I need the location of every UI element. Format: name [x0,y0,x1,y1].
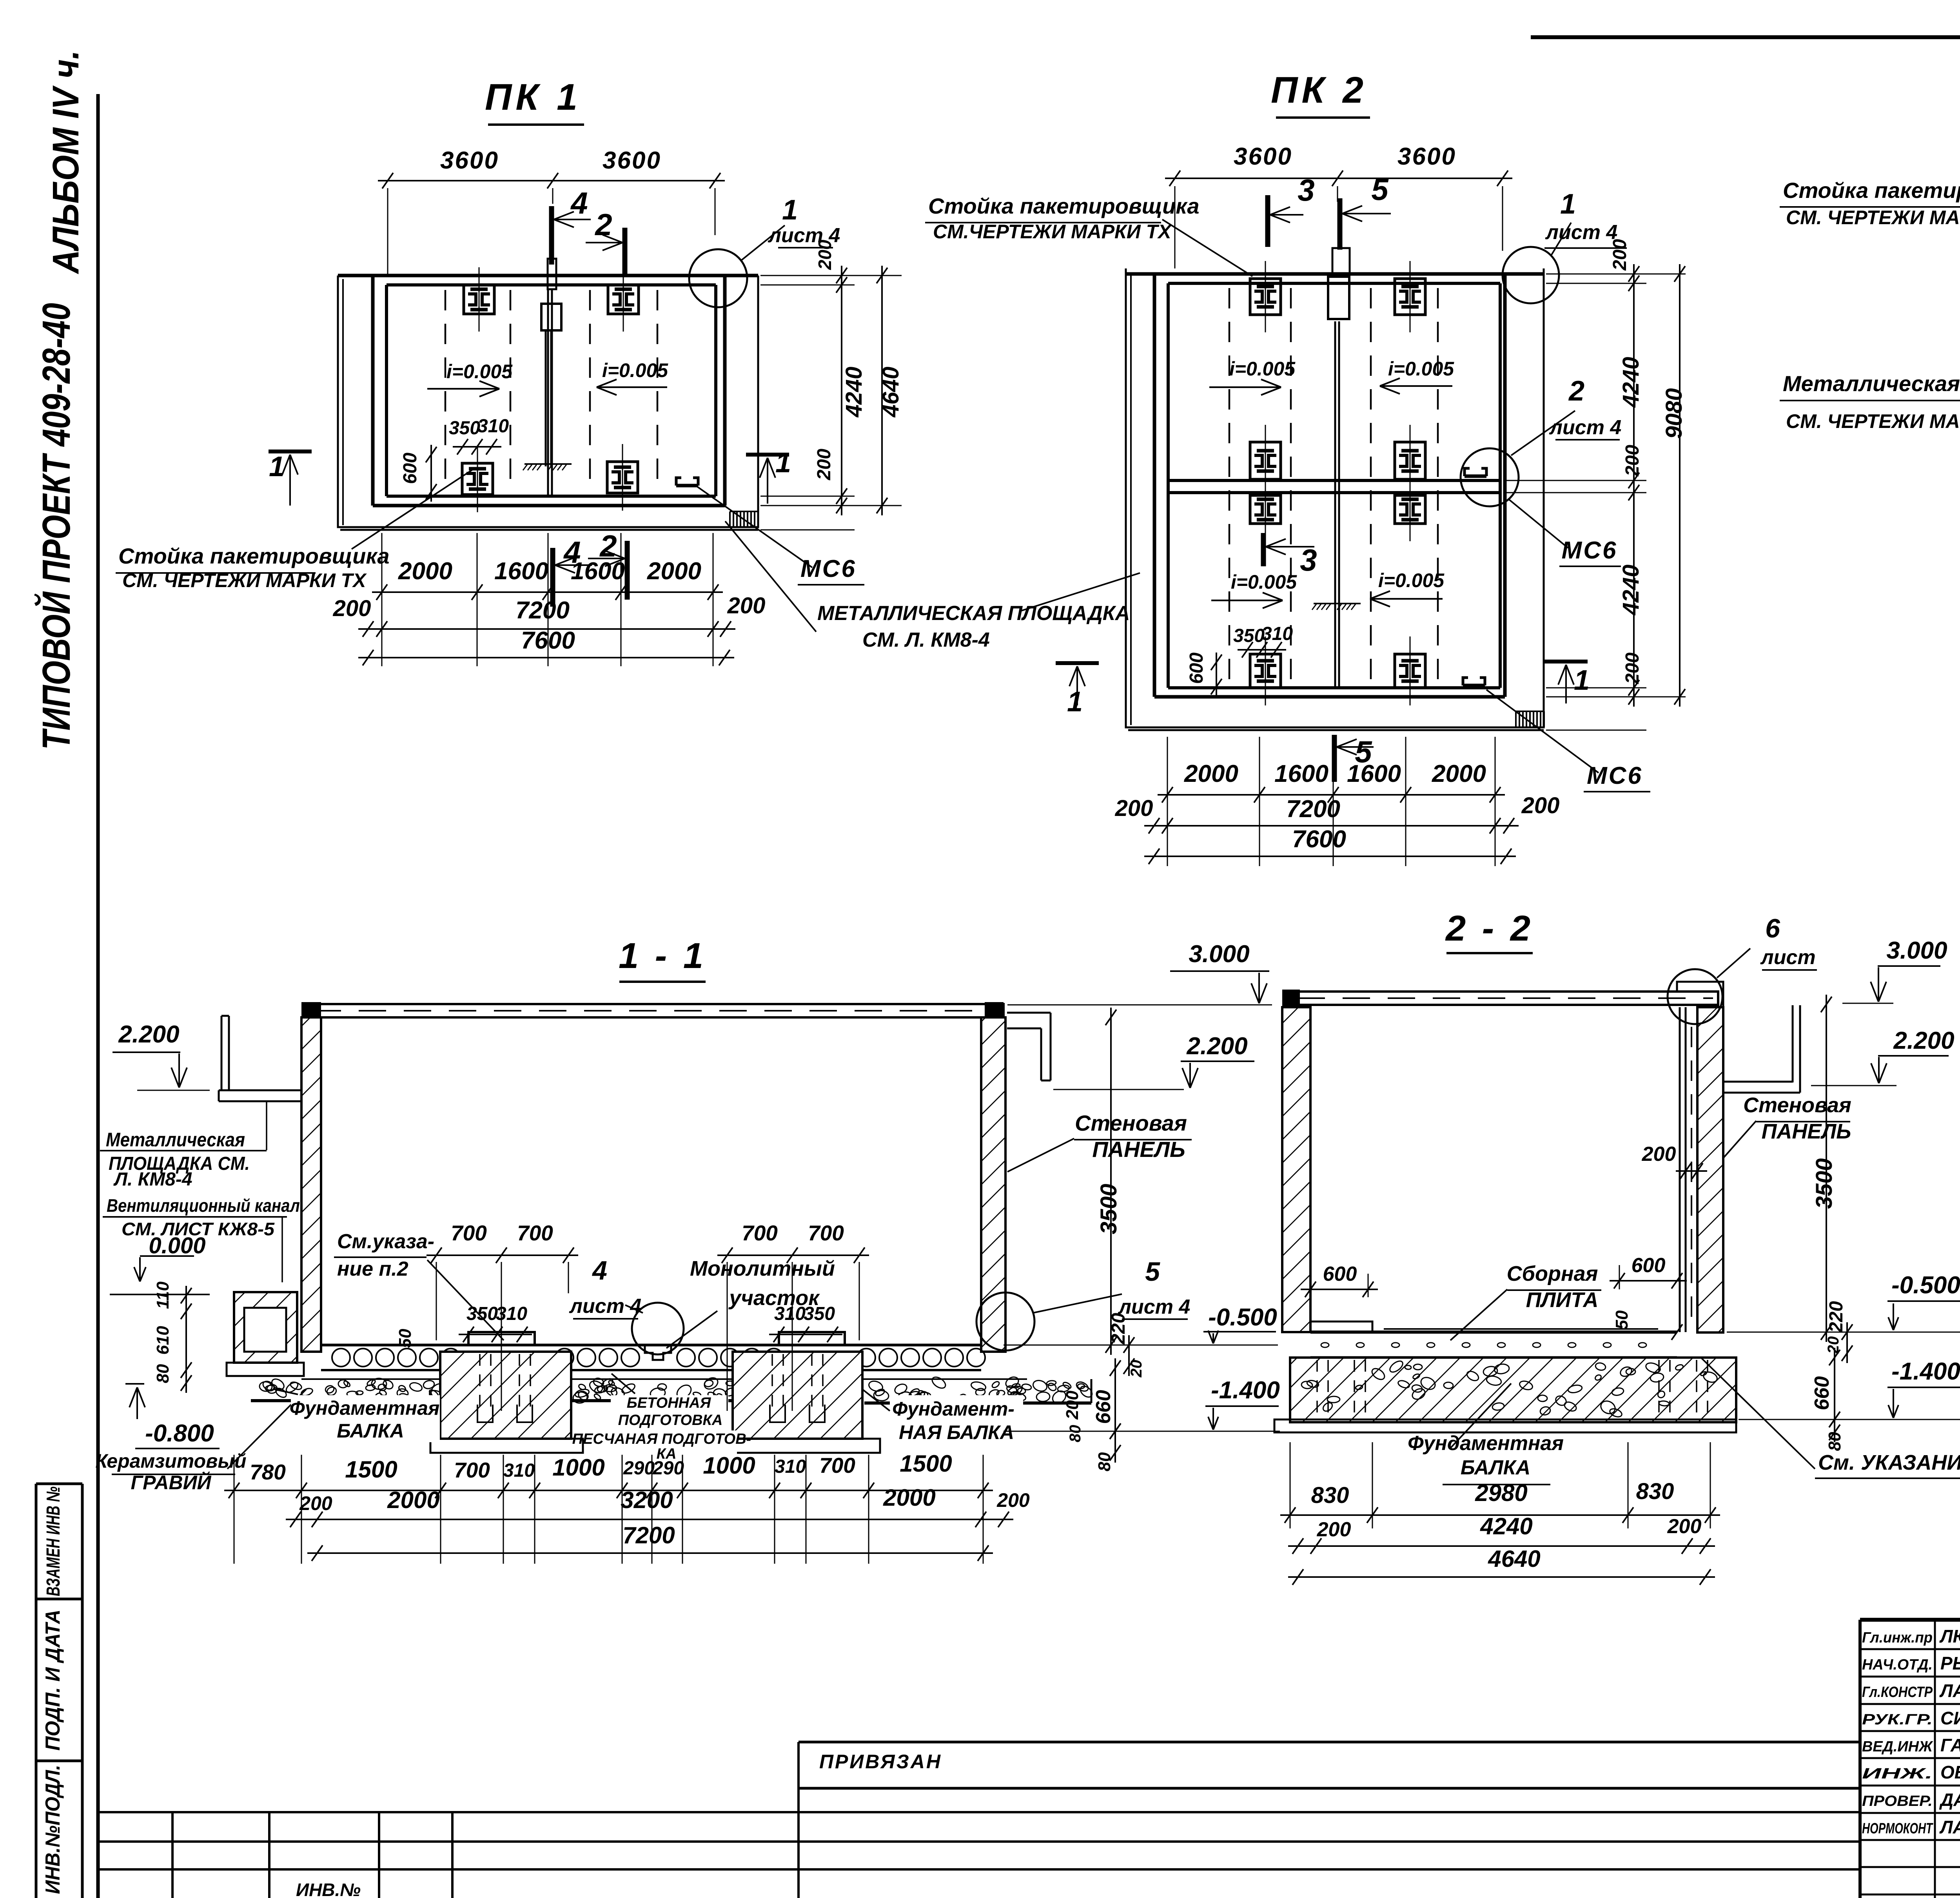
svg-text:i=0.005: i=0.005 [1229,358,1296,380]
svg-text:ТИПОВОЙ ПРОЕКТ 409-28-40: ТИПОВОЙ ПРОЕКТ 409-28-40 [34,303,78,750]
svg-text:4640: 4640 [1488,1546,1540,1572]
svg-text:200: 200 [727,593,766,618]
svg-text:1: 1 [1560,189,1576,220]
svg-text:Стойка пакетировщика: Стойка пакетировщика [928,194,1200,218]
svg-text:Фундаментная: Фундаментная [290,1397,440,1419]
svg-text:лист 4: лист 4 [569,1295,642,1318]
svg-text:Л. КМ8-4: Л. КМ8-4 [113,1169,192,1190]
svg-text:ПЛИТА: ПЛИТА [1526,1288,1599,1312]
svg-text:2000: 2000 [1184,760,1238,787]
svg-text:3500: 3500 [1096,1184,1122,1234]
svg-text:лист: лист [1760,946,1815,969]
svg-text:6: 6 [1765,914,1780,943]
svg-text:220: 220 [1108,1313,1129,1345]
svg-text:2 - 2: 2 - 2 [1445,908,1534,948]
svg-text:3200: 3200 [621,1487,673,1513]
svg-text:1: 1 [782,194,798,226]
svg-text:4240: 4240 [1480,1513,1532,1539]
svg-text:310: 310 [1261,624,1293,644]
svg-text:ИНЖ.: ИНЖ. [1862,1766,1933,1782]
svg-text:См. УКАЗАНИЕ п.2: См. УКАЗАНИЕ п.2 [1818,1451,1960,1474]
svg-text:2.200: 2.200 [1186,1033,1247,1060]
svg-text:НОРМОКОНТ: НОРМОКОНТ [1862,1820,1933,1837]
svg-text:1500: 1500 [900,1450,952,1477]
svg-text:7200: 7200 [1286,796,1340,823]
svg-text:80: 80 [1067,1425,1084,1443]
svg-text:200: 200 [996,1489,1030,1511]
svg-text:ГАЛЬПЕРИНА: ГАЛЬПЕРИНА [1940,1735,1960,1755]
svg-text:600: 600 [1632,1254,1666,1277]
svg-text:МС6: МС6 [1587,762,1643,789]
svg-text:200: 200 [1622,445,1643,477]
svg-text:660: 660 [1811,1376,1833,1410]
svg-text:600: 600 [1323,1263,1357,1285]
svg-text:80: 80 [153,1364,172,1383]
svg-text:МС6: МС6 [800,555,857,582]
svg-text:4: 4 [592,1256,607,1285]
svg-text:2000: 2000 [398,558,452,585]
svg-text:310: 310 [496,1303,527,1324]
svg-text:200: 200 [1063,1390,1082,1420]
svg-text:-0.500: -0.500 [1891,1272,1960,1299]
svg-text:7600: 7600 [1292,826,1346,853]
svg-text:3500: 3500 [1811,1158,1837,1209]
svg-text:i=0.005: i=0.005 [1388,358,1454,380]
svg-text:2000: 2000 [883,1485,935,1511]
svg-text:1500: 1500 [345,1456,397,1483]
svg-text:i=0.005: i=0.005 [1378,569,1445,591]
svg-text:200: 200 [1521,793,1560,818]
svg-text:СИНЕЛЬНИКОВА: СИНЕЛЬНИКОВА [1940,1708,1960,1728]
svg-text:110: 110 [153,1281,172,1309]
svg-text:ние п.2: ние п.2 [337,1258,408,1280]
svg-text:200: 200 [814,449,835,480]
svg-text:-1.400: -1.400 [1891,1358,1960,1385]
svg-text:310: 310 [503,1460,535,1481]
svg-text:Монолитный: Монолитный [690,1257,835,1280]
svg-text:2000: 2000 [1432,760,1486,787]
svg-text:2000: 2000 [647,558,701,585]
svg-text:БЕТОННАЯ: БЕТОННАЯ [627,1395,711,1411]
svg-text:лист 4: лист 4 [1549,416,1622,439]
svg-text:2.200: 2.200 [118,1021,179,1048]
svg-text:i=0.005: i=0.005 [602,359,668,381]
svg-text:МС6: МС6 [1562,537,1618,564]
svg-text:СМ. ЧЕРТЕЖИ МАРКИ ТХ: СМ. ЧЕРТЕЖИ МАРКИ ТХ [1786,410,1960,432]
svg-text:ПК 1: ПК 1 [485,76,581,118]
svg-text:Стеновая: Стеновая [1075,1111,1187,1135]
svg-text:ВЗАМЕН ИНВ №: ВЗАМЕН ИНВ № [43,1486,64,1596]
svg-text:2: 2 [594,207,612,242]
svg-text:ПК 2: ПК 2 [1271,69,1367,111]
svg-text:-0.800: -0.800 [145,1420,214,1447]
svg-text:9080: 9080 [1661,388,1687,439]
svg-text:Стеновая: Стеновая [1743,1093,1851,1117]
svg-text:290: 290 [652,1458,684,1479]
svg-text:350: 350 [1233,625,1265,646]
svg-text:4640: 4640 [878,366,904,417]
svg-text:2.200: 2.200 [1893,1027,1954,1054]
svg-text:220: 220 [1826,1301,1847,1333]
svg-text:НАЯ БАЛКА: НАЯ БАЛКА [899,1421,1014,1443]
svg-text:50: 50 [1612,1310,1632,1329]
svg-text:1000: 1000 [552,1454,604,1481]
svg-text:7200: 7200 [622,1522,675,1548]
svg-text:ЛАПКИН: ЛАПКИН [1939,1680,1960,1701]
svg-text:Фундаментная: Фундаментная [1408,1432,1564,1455]
svg-text:АЛЬБОМ IV ч.: АЛЬБОМ IV ч. [45,50,87,274]
svg-text:660: 660 [1092,1390,1115,1424]
svg-text:СМ. ЧЕРТЕЖИ МАРКИ ТХ: СМ. ЧЕРТЕЖИ МАРКИ ТХ [1786,207,1960,228]
svg-text:1: 1 [1574,665,1590,696]
svg-text:Гл.КОНСТР: Гл.КОНСТР [1862,1684,1933,1700]
svg-text:780: 780 [250,1460,286,1484]
svg-text:МЕТАЛЛИЧЕСКАЯ ПЛОЩАДКА: МЕТАЛЛИЧЕСКАЯ ПЛОЩАДКА [817,602,1130,625]
svg-text:Металлическая: Металлическая [106,1129,245,1151]
svg-text:4: 4 [570,186,588,220]
svg-text:290: 290 [623,1458,655,1479]
svg-text:ПРОВЕР.: ПРОВЕР. [1862,1793,1933,1809]
svg-text:См.указа-: См.указа- [337,1230,434,1253]
svg-text:СМ.ЧЕРТЕЖИ МАРКИ ТХ: СМ.ЧЕРТЕЖИ МАРКИ ТХ [933,221,1172,243]
svg-text:БАЛКА: БАЛКА [337,1420,404,1442]
svg-text:7200: 7200 [515,597,570,624]
svg-text:ВЕД.ИНЖ: ВЕД.ИНЖ [1862,1738,1933,1755]
svg-text:ЛЮБАВИН: ЛЮБАВИН [1939,1626,1960,1646]
svg-text:20: 20 [1128,1360,1145,1378]
svg-text:3600: 3600 [440,147,499,174]
svg-text:-0.500: -0.500 [1208,1304,1277,1331]
svg-text:700: 700 [454,1458,490,1482]
svg-text:3: 3 [1298,173,1314,207]
svg-text:ПЕСЧАНАЯ ПОДГОТОВ-: ПЕСЧАНАЯ ПОДГОТОВ- [572,1431,751,1447]
svg-text:ДАВЫДОВА: ДАВЫДОВА [1939,1789,1960,1810]
svg-text:1: 1 [269,451,285,482]
svg-text:4240: 4240 [1618,357,1644,408]
svg-text:лист 4: лист 4 [1545,221,1618,244]
svg-text:3600: 3600 [603,147,661,174]
svg-text:Гл.инж.пр: Гл.инж.пр [1862,1630,1933,1646]
svg-text:ПОДП. И ДАТА: ПОДП. И ДАТА [42,1610,64,1751]
svg-text:НАЧ.ОТД.: НАЧ.ОТД. [1862,1657,1933,1673]
svg-text:Стойка пакетировщика: Стойка пакетировщика [118,544,390,568]
svg-text:50: 50 [396,1329,415,1348]
svg-text:600: 600 [1186,653,1207,684]
svg-text:7600: 7600 [521,627,575,654]
svg-text:200: 200 [1610,239,1630,271]
svg-text:200: 200 [815,239,835,270]
svg-text:80: 80 [1095,1452,1114,1471]
svg-text:830: 830 [1636,1479,1674,1504]
svg-text:0.000: 0.000 [149,1233,205,1258]
svg-text:РЫБКИНА: РЫБКИНА [1940,1653,1960,1673]
svg-text:830: 830 [1311,1483,1349,1508]
svg-text:ПАНЕЛЬ: ПАНЕЛЬ [1092,1137,1185,1162]
svg-text:310: 310 [477,416,509,437]
svg-text:200: 200 [1115,796,1153,821]
svg-text:-1.400: -1.400 [1211,1377,1280,1404]
svg-text:1: 1 [775,447,791,479]
svg-text:200: 200 [1642,1143,1676,1166]
svg-text:3600: 3600 [1397,143,1456,170]
svg-text:i=0.005: i=0.005 [446,361,513,383]
svg-text:СМ. Л. КМ8-4: СМ. Л. КМ8-4 [862,629,990,651]
svg-text:610: 610 [153,1326,172,1355]
svg-text:i=0.005: i=0.005 [1231,571,1297,593]
svg-text:3600: 3600 [1234,143,1292,170]
svg-text:Стойка пакетировщика: Стойка пакетировщика [1783,178,1960,203]
svg-text:ОВЧАРОВА: ОВЧАРОВА [1940,1762,1960,1782]
svg-text:200: 200 [333,596,371,621]
svg-text:700: 700 [808,1221,844,1245]
svg-text:200: 200 [1317,1518,1351,1541]
svg-text:2000: 2000 [387,1487,439,1513]
svg-text:1600: 1600 [494,558,548,585]
svg-text:1600: 1600 [1274,760,1328,787]
svg-text:ПАНЕЛЬ: ПАНЕЛЬ [1762,1120,1851,1143]
svg-text:200: 200 [299,1492,332,1514]
svg-text:Керамзитовый: Керамзитовый [95,1450,246,1472]
svg-text:350: 350 [449,418,480,439]
svg-text:310: 310 [775,1456,806,1477]
svg-text:200: 200 [1622,653,1643,684]
svg-text:3: 3 [1300,543,1317,577]
svg-text:5: 5 [1145,1257,1160,1287]
svg-text:600: 600 [400,453,421,484]
svg-text:участок: участок [728,1286,820,1310]
svg-text:1000: 1000 [703,1452,755,1479]
svg-text:Сборная: Сборная [1507,1262,1598,1285]
svg-text:РУК.ГР.: РУК.ГР. [1862,1711,1933,1728]
svg-text:1: 1 [1067,686,1083,718]
svg-text:3.000: 3.000 [1189,941,1249,968]
svg-text:2980: 2980 [1475,1480,1527,1506]
svg-text:ПРИВЯЗАН: ПРИВЯЗАН [819,1751,942,1773]
svg-text:ИНВ.№: ИНВ.№ [296,1880,361,1898]
svg-text:5: 5 [1371,172,1389,207]
svg-text:1 - 1: 1 - 1 [619,936,706,976]
svg-text:4240: 4240 [1618,564,1644,615]
svg-text:2: 2 [1568,375,1584,407]
svg-text:ИНВ.№ПОДЛ.: ИНВ.№ПОДЛ. [42,1765,64,1894]
svg-text:700: 700 [451,1221,487,1245]
svg-text:700: 700 [742,1221,778,1245]
svg-text:БАЛКА: БАЛКА [1461,1456,1530,1479]
svg-text:1600: 1600 [571,558,625,585]
svg-text:200: 200 [1667,1515,1702,1538]
svg-text:ПОДГОТОВКА: ПОДГОТОВКА [618,1412,723,1428]
svg-text:4240: 4240 [841,366,867,417]
svg-text:Вентиляционный канал: Вентиляционный канал [107,1195,300,1216]
svg-text:Металлическая площадка: Металлическая площадка [1783,371,1960,396]
svg-text:700: 700 [517,1221,553,1245]
svg-text:3.000: 3.000 [1886,937,1947,964]
svg-text:ЛАПКИН: ЛАПКИН [1939,1817,1960,1837]
svg-text:700: 700 [819,1453,855,1477]
svg-text:Фундамент-: Фундамент- [892,1398,1014,1420]
svg-text:350: 350 [466,1303,498,1324]
svg-text:1600: 1600 [1347,760,1401,787]
